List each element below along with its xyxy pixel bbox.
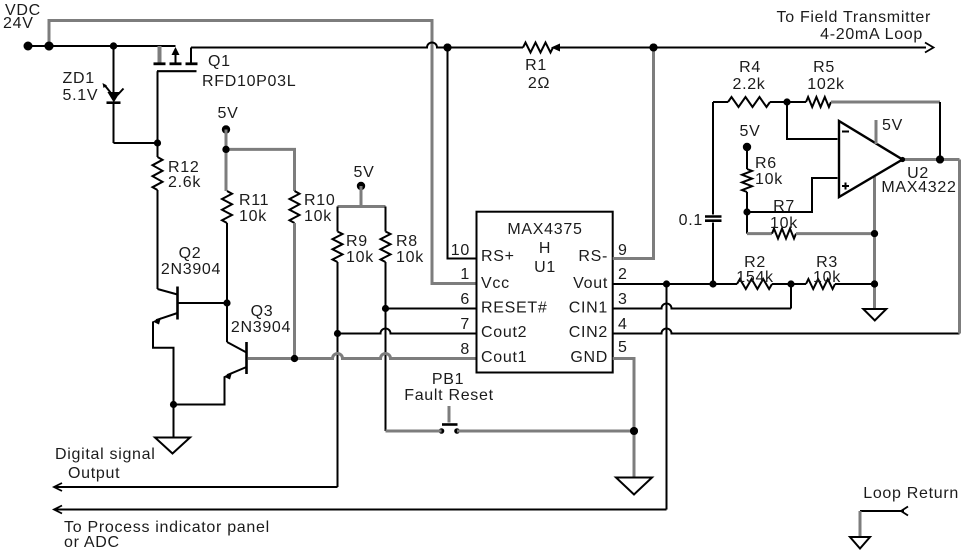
svg-text:24V: 24V	[3, 15, 34, 32]
resistor R9 10k	[333, 232, 375, 267]
wire digital signal output	[54, 483, 338, 491]
svg-text:8: 8	[460, 341, 470, 358]
node cap junction	[709, 280, 716, 287]
node R7 ground junction	[871, 230, 878, 237]
svg-text:R10: R10	[304, 192, 335, 209]
transistor Q3 2N3904	[224, 303, 292, 380]
pushbutton PB1 Fault Reset	[404, 371, 494, 434]
svg-text:U1: U1	[534, 259, 556, 276]
ground	[850, 537, 870, 549]
svg-text:R11: R11	[239, 192, 269, 209]
resistor R7 10k	[747, 198, 875, 239]
wire R8 top lead	[385, 207, 387, 232]
wire opamp output	[903, 158, 960, 161]
resistor R3 10k	[806, 254, 841, 289]
node gate junction	[154, 139, 161, 146]
svg-text:9: 9	[618, 242, 628, 259]
node junction dot	[110, 42, 117, 49]
wire opamp Vss down	[873, 177, 876, 234]
node 5V supply left	[218, 105, 239, 134]
svg-text:Q1: Q1	[208, 53, 231, 70]
wire output to CIN2	[958, 160, 961, 334]
wire pin6 RESET lead	[386, 291, 477, 309]
wire R3 to ground node	[835, 283, 875, 285]
svg-text:MAX4322: MAX4322	[881, 179, 956, 196]
wire VDC rail to MOSFET source	[28, 45, 176, 47]
transistor Q2 2N3904	[153, 245, 228, 325]
svg-text:10k: 10k	[755, 171, 783, 188]
node ZD1 top junction	[110, 42, 117, 49]
svg-text:10k: 10k	[396, 249, 424, 266]
node loop return label	[863, 485, 959, 502]
wire R10 to Q3 base	[293, 223, 296, 359]
op-amp U2 MAX4322	[839, 117, 957, 197]
svg-text:Cout2: Cout2	[481, 324, 527, 341]
node process indicator label	[64, 519, 270, 550]
svg-text:10: 10	[451, 242, 470, 259]
node VDC 24V terminal	[3, 2, 41, 51]
wire PB1 to GND node	[457, 430, 634, 433]
wire R8 to PB1 contact	[386, 430, 442, 433]
svg-text:154k: 154k	[736, 269, 774, 286]
svg-text:MAX4375: MAX4375	[507, 221, 582, 238]
wire R11 to Q2 base node	[226, 223, 228, 342]
svg-text:Vcc: Vcc	[481, 275, 510, 292]
transistor Q1 RFD10P03L p-channel MOSFET	[154, 46, 297, 90]
op-amp U1 MAX4375 IC box	[477, 212, 613, 373]
svg-text:2.2k: 2.2k	[732, 76, 765, 93]
svg-text:RS-: RS-	[578, 248, 608, 265]
wire to ground	[173, 405, 175, 438]
wire Vout node down to output line	[666, 284, 668, 510]
node pin6 junction	[382, 305, 389, 312]
wire pin2 Vout lead	[613, 266, 667, 284]
wire 5V stub	[225, 130, 228, 150]
node junction dot	[444, 44, 452, 52]
svg-text:R8: R8	[396, 233, 418, 250]
wire GND node down	[633, 431, 636, 478]
svg-text:10k: 10k	[239, 208, 267, 225]
resistor R5 102k	[806, 59, 845, 107]
node Q2 base junction	[223, 299, 230, 306]
wire R12 to Q2 collector	[157, 190, 159, 289]
svg-text:RFD10P03L: RFD10P03L	[202, 73, 296, 90]
wire R2 to R3	[772, 283, 806, 285]
wire CIN1 riser	[790, 284, 792, 309]
svg-text:PB1: PB1	[432, 371, 464, 388]
node R6 junction	[743, 208, 750, 215]
wire to noninverting input	[747, 178, 838, 212]
node junction	[45, 42, 54, 51]
svg-text:7: 7	[460, 316, 470, 333]
node digital signal label	[55, 446, 156, 482]
wire Q2 emitter	[153, 322, 174, 405]
node feedback junction	[783, 98, 790, 105]
resistor R4 2.2k	[713, 59, 770, 107]
svg-text:Cout1: Cout1	[481, 349, 527, 366]
ground	[155, 438, 190, 454]
wire R1 to loop arrow	[560, 47, 926, 49]
svg-text:R6: R6	[755, 155, 777, 172]
node CIN1 junction	[787, 280, 794, 287]
wire to process indicator	[54, 506, 667, 514]
wire pin9 RS- lead	[613, 48, 654, 260]
node junction dot	[871, 230, 878, 237]
svg-text:5V: 5V	[354, 164, 375, 181]
wire pin10 RS+ lead	[448, 48, 477, 260]
svg-text:Fault Reset: Fault Reset	[404, 387, 494, 404]
svg-text:2N3904: 2N3904	[231, 319, 291, 336]
node junction dot	[650, 44, 658, 52]
node junction dot	[222, 146, 229, 153]
wire R5 to feedback corner	[831, 101, 940, 104]
svg-text:5V: 5V	[218, 105, 239, 122]
svg-text:4-20mA Loop: 4-20mA Loop	[820, 26, 923, 43]
node 5V supply mid	[354, 164, 375, 190]
resistor R2 154k	[736, 254, 774, 289]
svg-text:GND: GND	[570, 349, 608, 366]
svg-text:Loop Return: Loop Return	[863, 485, 959, 502]
node output feedback junction	[936, 156, 944, 164]
wire R6 node down to R7	[746, 212, 748, 234]
svg-text:H: H	[539, 240, 551, 257]
svg-text:CIN2: CIN2	[569, 324, 608, 341]
svg-text:Output: Output	[68, 465, 120, 482]
svg-text:6: 6	[460, 291, 470, 308]
node RS- tap junction	[650, 44, 658, 52]
svg-text:R5: R5	[813, 59, 835, 76]
svg-text:2Ω: 2Ω	[528, 75, 550, 92]
node Vout junction	[663, 280, 670, 287]
wire Q3 emitter	[174, 377, 225, 405]
wire pin4 CIN2 lead	[613, 316, 960, 334]
ground	[863, 309, 886, 321]
wire Vout row	[667, 283, 738, 285]
wire loop return down	[859, 511, 862, 537]
wire R9 top lead	[337, 207, 339, 232]
node RS+ tap junction	[444, 44, 452, 52]
wire Q3 collector lead	[227, 342, 247, 353]
svg-text:4: 4	[618, 316, 628, 333]
svg-text:102k: 102k	[807, 76, 845, 93]
resistor R6 10k	[742, 155, 783, 192]
resistor R1 2 ohm sense	[523, 43, 560, 93]
svg-text:To Field Transmitter: To Field Transmitter	[777, 9, 931, 26]
wire pin8 Cout1 lead	[248, 341, 477, 359]
wire gray 24V feed to U1 Vcc	[49, 21, 477, 284]
wire ground riser	[873, 234, 876, 309]
svg-text:CIN1: CIN1	[569, 300, 608, 317]
wire 5V bar to R11 R10	[226, 149, 295, 191]
wire R8 down to pushbutton	[385, 262, 387, 431]
node junction dot	[871, 280, 878, 287]
wire loop return stub	[860, 507, 908, 516]
svg-text:3: 3	[618, 291, 628, 308]
node GND junction	[630, 427, 638, 435]
node pin7 junction	[334, 330, 341, 337]
svg-text:R4: R4	[739, 59, 761, 76]
wire drain rail to R1	[191, 43, 523, 48]
node Q3 base junction	[291, 355, 298, 362]
svg-text:1: 1	[460, 266, 470, 283]
node junction dot	[630, 427, 638, 435]
wire gate lead	[157, 71, 159, 157]
wire R6 bottom lead	[746, 192, 748, 212]
resistor R12 2.6k	[153, 157, 202, 191]
svg-text:2: 2	[618, 266, 628, 283]
svg-text:0.1: 0.1	[679, 212, 703, 229]
node R3 ground junction	[871, 280, 878, 287]
resistor R8 10k	[381, 232, 425, 267]
svg-text:2.6k: 2.6k	[168, 174, 201, 191]
wire pin7 Cout2 lead	[338, 316, 477, 334]
node opamp output apex dot	[900, 157, 905, 162]
svg-text:10k: 10k	[304, 208, 332, 225]
node 5V supply R6	[740, 123, 761, 151]
wire feedback down	[939, 102, 941, 160]
wire pin1 Vcc label	[460, 266, 470, 283]
wire pin5 GND lead	[613, 339, 634, 431]
node junction dot	[45, 42, 54, 51]
svg-text:Q2: Q2	[179, 245, 202, 262]
capacitor 0.1uF	[679, 102, 722, 284]
svg-text:5: 5	[618, 339, 628, 356]
svg-text:Digital signal: Digital signal	[55, 446, 156, 463]
wire zener to gate node	[114, 142, 158, 144]
wire pin3 CIN1 lead	[613, 291, 791, 309]
svg-text:R9: R9	[346, 233, 368, 250]
svg-text:5.1V: 5.1V	[63, 87, 99, 104]
svg-text:5V: 5V	[882, 117, 903, 134]
svg-text:R7: R7	[773, 198, 795, 215]
svg-text:ZD1: ZD1	[63, 70, 95, 87]
svg-text:R1: R1	[525, 57, 547, 74]
wire R6 top lead	[746, 147, 748, 169]
svg-text:RS+: RS+	[481, 248, 515, 265]
node emitter junction	[170, 401, 177, 408]
svg-text:10k: 10k	[346, 249, 374, 266]
wire 5V stub mid	[360, 186, 363, 207]
wire R4 to R5	[770, 101, 806, 103]
resistor R10 10k	[290, 191, 336, 225]
resistor R11 10k	[222, 191, 269, 225]
node junction dot	[291, 355, 298, 362]
svg-text:or ADC: or ADC	[64, 534, 120, 550]
node junction dot	[936, 156, 944, 164]
svg-text:10k: 10k	[770, 215, 798, 232]
wire to field transmitter arrow	[777, 9, 934, 53]
svg-text:Vout: Vout	[573, 275, 608, 292]
node 5V junction	[222, 146, 229, 153]
svg-text:RESET#: RESET#	[481, 300, 547, 317]
zener ZD1 5.1V	[63, 46, 124, 143]
svg-text:2N3904: 2N3904	[161, 261, 221, 278]
svg-text:Q3: Q3	[251, 303, 274, 320]
wire inverting input	[787, 102, 838, 139]
svg-text:5V: 5V	[740, 123, 761, 140]
wire R9 down to output line	[337, 262, 339, 487]
ground	[616, 478, 652, 495]
wire 5V bar R9 R8	[338, 205, 386, 208]
